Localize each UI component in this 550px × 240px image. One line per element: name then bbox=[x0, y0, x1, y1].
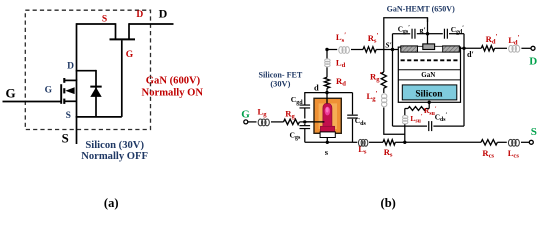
svg-text:Silicon (30V): Silicon (30V) bbox=[85, 140, 144, 151]
Si FET die cell (crimson with pink channel) bbox=[323, 103, 332, 127]
svg-text:G: G bbox=[45, 86, 53, 96]
resistor Rs' bbox=[363, 47, 376, 52]
svg-text:Lg: Lg bbox=[258, 107, 268, 119]
node S' (GaN source) bbox=[391, 48, 394, 51]
wire: top loop from gate-return vertical to g' bbox=[384, 18, 428, 50]
terminal G (gate, green) bbox=[244, 120, 248, 124]
capacitor Cgd' bbox=[428, 33, 443, 35]
svg-text:S: S bbox=[102, 15, 107, 25]
inductor Lg bbox=[258, 119, 263, 126]
wire: substrate node down bbox=[428, 102, 430, 108]
svg-text:Ls: Ls bbox=[358, 144, 367, 156]
svg-text:Lg′: Lg′ bbox=[367, 90, 378, 102]
resistor Rsu' bbox=[408, 107, 426, 111]
node: Si-drain / GaN-source interconnect joint bbox=[325, 48, 328, 51]
wire: d-net horizontal bbox=[304, 92, 352, 94]
svg-text:S: S bbox=[66, 111, 71, 121]
capacitor Cds bbox=[347, 114, 358, 116]
die pedestal (source contact) bbox=[320, 132, 335, 138]
wire: V2 vertical S' to lower return bbox=[392, 34, 394, 126]
inductor Ld' (pale) bbox=[509, 45, 513, 52]
svg-text:Rg′: Rg′ bbox=[370, 71, 382, 83]
node: substrate bbox=[428, 101, 431, 104]
node d' (GaN drain) bbox=[462, 47, 465, 50]
GaN HEMT normally-on device bbox=[115, 23, 117, 38]
svg-text:Ls′: Ls′ bbox=[336, 32, 346, 44]
inductor Lsu' (pale) bbox=[404, 109, 406, 116]
wire: s-net to Ls bbox=[353, 141, 358, 143]
wire: Lg to Rg bbox=[271, 121, 284, 123]
svg-text:Cgd: Cgd bbox=[291, 95, 303, 106]
wire: d node to Rd bbox=[326, 88, 328, 92]
wire: bottom node joining source, diode anode, GaN gate bbox=[77, 116, 122, 118]
wire: V4 vertical d' to Cds' line bbox=[463, 34, 465, 126]
GaN-HEMT die outline bbox=[398, 47, 460, 102]
wire: die top to d node bbox=[326, 93, 328, 104]
svg-text:S: S bbox=[62, 131, 69, 145]
svg-text:(a): (a) bbox=[104, 196, 119, 210]
wire: Lg' down and right to source node bbox=[384, 108, 405, 135]
svg-text:D: D bbox=[67, 61, 74, 71]
svg-text:Rcs: Rcs bbox=[482, 148, 494, 160]
svg-text:Ld: Ld bbox=[336, 58, 346, 70]
wire: Rg to gate node bbox=[299, 121, 314, 123]
svg-text:s: s bbox=[325, 147, 329, 157]
resistor Rs bbox=[383, 140, 395, 145]
wire: Ls to Rs bbox=[369, 141, 383, 143]
svg-text:Rs: Rs bbox=[384, 147, 393, 159]
wire: Rs to node X bbox=[395, 141, 405, 143]
svg-text:D: D bbox=[159, 7, 168, 21]
wire: Lsu' to source node X bbox=[404, 124, 406, 142]
node g' (GaN gate) bbox=[426, 32, 429, 35]
inductor Ld (pale) bbox=[325, 59, 330, 62]
inductor Ls' (pale) bbox=[339, 47, 343, 54]
resistor Rg bbox=[284, 119, 300, 124]
wire: s-net horizontal under Si FET bbox=[305, 141, 353, 143]
inductor Lg' (pale) bbox=[383, 88, 385, 93]
svg-text:(b): (b) bbox=[381, 196, 396, 210]
svg-text:Cds′: Cds′ bbox=[435, 112, 448, 123]
svg-text:G: G bbox=[126, 50, 134, 60]
wire: Cgs' net from S' column bbox=[393, 33, 411, 35]
wire: Rcs to Lcs bbox=[497, 141, 506, 143]
svg-text:Cgd′: Cgd′ bbox=[451, 24, 464, 35]
svg-text:GaN-HEMT (650V): GaN-HEMT (650V) bbox=[387, 5, 455, 14]
2DEG dashed channel bbox=[401, 59, 459, 61]
node X (common source return) bbox=[403, 141, 406, 144]
svg-text:Rd′: Rd′ bbox=[486, 33, 498, 45]
svg-text:Rs′: Rs′ bbox=[368, 32, 379, 44]
wire: Ld to joint node bbox=[326, 50, 328, 59]
wire: top source-drain rail of GaN device bbox=[77, 23, 116, 25]
wire: joint to Ls' bbox=[327, 49, 337, 51]
capacitor Cgs bbox=[304, 124, 306, 125]
body diode of Si MOSFET bbox=[95, 70, 97, 117]
Silicon substrate bar bbox=[402, 85, 457, 100]
svg-text:d: d bbox=[314, 83, 319, 93]
terminal D (drain, green) bbox=[531, 46, 535, 50]
svg-text:Ld′: Ld′ bbox=[508, 34, 519, 46]
inductor Ls bbox=[358, 139, 362, 146]
svg-text:Lsu′: Lsu′ bbox=[410, 113, 422, 124]
svg-text:Cds: Cds bbox=[355, 116, 367, 127]
terminal S (source, green) bbox=[529, 140, 533, 144]
capacitor Cgs' bbox=[411, 29, 413, 39]
resistor Rg' (GaN gate return) bbox=[383, 50, 385, 73]
wire: Lcs to S terminal bbox=[521, 141, 529, 143]
wire: gate into die bbox=[305, 121, 325, 123]
wire: Rs' to node S' bbox=[376, 49, 401, 51]
svg-text:S′: S′ bbox=[385, 40, 391, 49]
svg-text:g′: g′ bbox=[420, 26, 426, 35]
wire: d' to Rd' bbox=[464, 47, 481, 49]
wire: Rd to Ld bbox=[326, 67, 328, 77]
svg-text:D: D bbox=[136, 10, 143, 20]
svg-text:GaN: GaN bbox=[421, 71, 435, 79]
GaN drain ohmic contact bbox=[443, 46, 460, 52]
wire: Si drain to diode cathode bbox=[76, 70, 96, 72]
resistor Rd bbox=[324, 77, 329, 88]
gate electrode bbox=[423, 44, 435, 50]
wire: Ls' to Rs' bbox=[351, 49, 363, 51]
node: Si gate node bbox=[303, 120, 306, 123]
svg-text:Lcs: Lcs bbox=[508, 148, 520, 160]
svg-text:Normally OFF: Normally OFF bbox=[81, 151, 148, 162]
wire: s node to Cds column bbox=[352, 93, 354, 115]
inductor Lcs bbox=[508, 139, 512, 146]
node s (Si source) bbox=[326, 141, 329, 144]
svg-text:Silicon: Silicon bbox=[415, 89, 443, 99]
svg-text:Normally ON: Normally ON bbox=[142, 87, 204, 98]
svg-text:Rd: Rd bbox=[336, 76, 346, 88]
wire: Rd' to Ld' bbox=[495, 47, 507, 49]
svg-text:d′: d′ bbox=[467, 50, 474, 59]
wire: drain contact to d' node bbox=[460, 47, 464, 49]
resistor Rcs bbox=[481, 140, 497, 145]
wire: G terminal to Lg bbox=[248, 121, 257, 123]
resistor Rd' bbox=[481, 46, 494, 51]
Si MOSFET Q1 (enhancement NMOS) bbox=[3, 101, 62, 103]
svg-text:GaN (600V): GaN (600V) bbox=[146, 76, 201, 87]
wire: Ld' to D terminal bbox=[521, 47, 530, 49]
svg-text:Silicon- FET: Silicon- FET bbox=[258, 71, 302, 80]
svg-text:G: G bbox=[241, 109, 250, 121]
figure (a) dashed package boundary box bbox=[25, 10, 150, 129]
svg-text:Rg: Rg bbox=[285, 109, 295, 121]
capacitor Cgd bbox=[304, 108, 306, 118]
wire: Rsu' to Lsu' bbox=[405, 108, 408, 110]
wire: g' to gate electrode bbox=[427, 34, 429, 44]
svg-text:S: S bbox=[531, 126, 537, 138]
capacitor Cds' on return line bbox=[393, 125, 428, 127]
svg-text:Cgs: Cgs bbox=[290, 131, 301, 142]
svg-text:G: G bbox=[6, 85, 16, 100]
wire: node X to Rcs bbox=[405, 141, 481, 143]
svg-text:D: D bbox=[529, 55, 537, 67]
wire: source down to S terminal bbox=[76, 116, 78, 144]
node d (Si drain) bbox=[325, 91, 328, 94]
GaN layer boundaries bbox=[398, 69, 460, 71]
svg-text:(30V): (30V) bbox=[270, 80, 290, 89]
Si FET die package (orange) bbox=[314, 98, 341, 133]
GaN source ohmic contact bbox=[401, 46, 418, 52]
gate dielectric region bbox=[418, 46, 443, 52]
wire: Si drain vertical to top rail bbox=[76, 23, 78, 80]
wire: die bottom to s node bbox=[326, 138, 328, 143]
